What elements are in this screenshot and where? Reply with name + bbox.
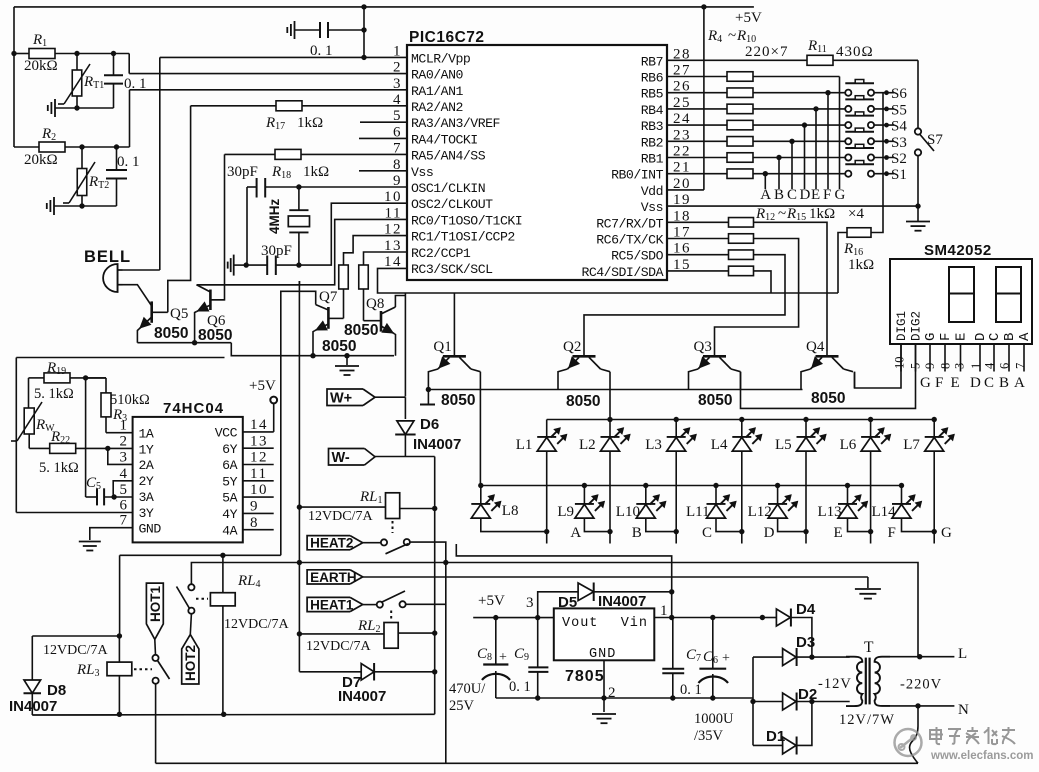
wire HOT1 to RL3 contact — [154, 639, 157, 654]
svg-text:+: + — [722, 651, 730, 666]
node rail1 column F — [868, 417, 873, 422]
wire rail2 to L13 — [847, 486, 849, 504]
svg-text:E: E — [811, 187, 820, 203]
wire Vss pin19 — [667, 205, 918, 207]
wire pin24 row — [667, 124, 727, 126]
wire relay riser W- — [434, 457, 436, 715]
svg-text:1: 1 — [120, 418, 129, 434]
wire mains bottom line — [156, 762, 918, 764]
svg-text:RB0/INT: RB0/INT — [611, 168, 663, 183]
svg-text:12VDC/7A: 12VDC/7A — [224, 617, 289, 632]
svg-text:RB6: RB6 — [641, 71, 664, 86]
svg-text:GND: GND — [589, 647, 616, 662]
svg-text:5A: 5A — [222, 491, 237, 506]
svg-text:0. 1: 0. 1 — [680, 682, 702, 698]
wire pin26 row — [667, 92, 727, 94]
wire column tail B — [609, 532, 611, 544]
wire column tail G — [933, 532, 935, 544]
svg-text:~: ~ — [778, 206, 786, 222]
svg-text:2A: 2A — [139, 458, 154, 473]
svg-text:/35V: /35V — [694, 728, 724, 744]
svg-text:Q8: Q8 — [366, 296, 384, 312]
relay coil RL4 — [210, 593, 235, 606]
switch S4 — [845, 115, 874, 117]
node rail2 L12 — [775, 483, 780, 488]
flag EARTH — [307, 570, 350, 584]
svg-text:8050: 8050 — [566, 393, 600, 410]
switch S3 — [845, 131, 874, 133]
svg-text:6: 6 — [120, 498, 129, 514]
node column F — [825, 90, 830, 95]
diode D7 — [299, 671, 361, 673]
svg-text:5: 5 — [393, 108, 402, 124]
svg-text:B: B — [774, 187, 784, 203]
LED L5 — [797, 436, 816, 438]
svg-text:7: 7 — [120, 513, 129, 529]
wire pin28 RB7 to R11 — [667, 59, 807, 61]
wire row to switch S6 — [753, 92, 845, 94]
switch RL4 contact top — [188, 584, 194, 590]
wire Q1 collector to LED rail2 — [479, 372, 481, 486]
node pin2 pin3 junction — [105, 446, 110, 451]
capacitor 0.1 at MCLR — [328, 29, 364, 31]
wire column below L3 — [675, 451, 677, 531]
LED L14 — [892, 503, 911, 505]
diode D3 — [753, 656, 783, 658]
node column E — [813, 106, 818, 111]
wire column tail E — [805, 532, 807, 544]
wire EARTH to ground — [867, 577, 869, 588]
svg-text:1Y: 1Y — [139, 442, 154, 457]
svg-text:8050: 8050 — [698, 392, 732, 409]
transformer T secondary winding — [875, 657, 890, 706]
svg-text:Q2: Q2 — [563, 339, 581, 355]
svg-text:RB4: RB4 — [641, 103, 664, 118]
wire R22 to pin2 — [76, 447, 133, 449]
wire Q7 base from resistor — [343, 289, 345, 318]
wire pin10 OSC2 — [299, 203, 407, 265]
ground at 7805 — [592, 713, 616, 715]
svg-text:12VDC/7A: 12VDC/7A — [306, 639, 371, 654]
node rail2 L10 — [643, 483, 648, 488]
wire pin22 row — [667, 157, 727, 159]
wire BELL riser — [159, 57, 161, 270]
wire capacitor ground rail — [496, 697, 753, 699]
svg-text:L6: L6 — [840, 437, 857, 453]
wire R16 right to keypad bus — [871, 206, 883, 232]
wire rail2 to L10 — [645, 486, 647, 504]
svg-text:HOT2: HOT2 — [183, 645, 198, 681]
node column A — [763, 171, 768, 176]
wire L14 to column link — [902, 518, 935, 531]
svg-text:C: C — [984, 375, 994, 391]
wire R15 out — [754, 271, 772, 293]
wire column tail C — [675, 532, 677, 544]
svg-text:S4: S4 — [891, 119, 907, 135]
node D3 out — [809, 654, 814, 659]
svg-text:W+: W+ — [330, 390, 352, 406]
wire relay line A from Q7 — [120, 554, 281, 556]
ground at RT2 — [53, 197, 55, 215]
wire pin12 jog to R20 vertical resistor — [344, 236, 408, 266]
speaker BELL — [103, 264, 118, 292]
diode D5 — [578, 583, 594, 601]
transistor Q6 — [209, 290, 212, 311]
svg-text:RA5/AN4/SS: RA5/AN4/SS — [411, 149, 486, 164]
ground at 74HC04 — [79, 541, 101, 543]
ground at S7 — [917, 206, 919, 221]
resistor R1 — [11, 51, 16, 56]
wire relay bottom rail — [32, 713, 434, 716]
svg-text:C: C — [987, 333, 1003, 341]
LED L6 — [861, 436, 880, 438]
svg-text:8050: 8050 — [198, 327, 232, 344]
node column link G — [932, 529, 937, 534]
wire S7 to Vss — [917, 156, 919, 206]
wire RW to R22 — [29, 447, 50, 449]
wire column below L5 — [805, 451, 807, 531]
node rail1 column E — [803, 417, 808, 422]
svg-text:470U/: 470U/ — [449, 681, 486, 697]
transistor Q3 — [703, 355, 726, 358]
resistor R3 vertical — [86, 377, 106, 379]
node column link B — [607, 529, 612, 534]
svg-text:4Y: 4Y — [222, 507, 237, 522]
wire VCC to +5V terminal — [273, 403, 275, 432]
wire +5V output — [473, 617, 554, 619]
svg-text:Q4: Q4 — [806, 339, 825, 355]
switch RL3 contact bottom — [153, 678, 159, 684]
svg-text:220×7: 220×7 — [745, 44, 788, 60]
switch RL4 blade — [177, 587, 190, 609]
node line B Q6 riser — [297, 560, 302, 565]
svg-text:1: 1 — [393, 43, 402, 59]
svg-text:1kΩ: 1kΩ — [297, 115, 323, 131]
switch HEAT1 contact right — [400, 601, 406, 607]
wire column G — [839, 77, 841, 190]
transformer T primary winding — [846, 657, 862, 706]
svg-text:RC1/T1OSI/CCP2: RC1/T1OSI/CCP2 — [411, 230, 515, 245]
svg-text:4MHz: 4MHz — [267, 198, 282, 234]
svg-text:12VDC/7A: 12VDC/7A — [308, 509, 373, 524]
node rail1 Q2 — [607, 417, 612, 422]
flag HEAT2 — [307, 536, 350, 550]
node S7 Vss junction — [915, 203, 920, 208]
svg-text:D6: D6 — [420, 416, 439, 433]
wire RT2 bottom to ground — [79, 203, 84, 208]
LED L12 — [768, 503, 787, 505]
IC U3 display SM42052 box — [890, 259, 1032, 344]
node rail2 L14 — [899, 483, 904, 488]
wire column B — [778, 158, 780, 190]
svg-text:14: 14 — [250, 417, 268, 433]
wire R11 to S7 riser — [833, 59, 918, 61]
svg-text:D8: D8 — [47, 682, 66, 699]
svg-text:N: N — [958, 702, 969, 718]
wire column E — [815, 109, 817, 189]
resistor R16 — [847, 228, 871, 238]
svg-text:D3: D3 — [796, 634, 815, 651]
wire HOT2 to RL4 contact — [190, 614, 191, 635]
svg-text:1: 1 — [660, 603, 668, 619]
wire pin21 row — [667, 173, 727, 175]
wire LED top rail — [547, 419, 935, 421]
svg-text:0. 1: 0. 1 — [509, 679, 531, 695]
resistor R7 — [727, 120, 753, 130]
switch HEAT2 contact right — [404, 539, 410, 545]
wire pin2 pin3 link — [108, 448, 133, 464]
svg-text:B: B — [632, 525, 642, 541]
wire column tail A — [546, 532, 548, 544]
svg-text:F: F — [823, 187, 831, 203]
svg-text:3A: 3A — [139, 490, 154, 505]
svg-text:Vss: Vss — [641, 200, 663, 215]
node crystal top — [296, 184, 301, 189]
svg-text:BELL: BELL — [84, 248, 131, 266]
svg-text:L7: L7 — [903, 437, 920, 453]
node MCLR pin1 junction — [361, 55, 366, 60]
wire bridge left column — [752, 657, 754, 745]
svg-text:L9: L9 — [557, 504, 574, 520]
svg-text:RA2/AN2: RA2/AN2 — [411, 100, 463, 115]
wire pin6 stub — [359, 137, 407, 139]
transistor Q5 — [150, 301, 153, 322]
node C7 gnd — [670, 695, 675, 700]
svg-text:510kΩ: 510kΩ — [110, 392, 150, 408]
svg-text:RC7/RX/DT: RC7/RX/DT — [596, 216, 663, 231]
dashed link RL1 — [392, 521, 394, 533]
wire column segment E — [805, 420, 807, 437]
svg-text:A: A — [1014, 375, 1025, 391]
transistor Q2 — [573, 355, 596, 358]
svg-text:D1: D1 — [766, 728, 785, 745]
svg-text:Vout: Vout — [562, 616, 598, 631]
switch S5 — [845, 98, 874, 100]
svg-text:L5: L5 — [775, 437, 792, 453]
node RL4 drop — [220, 553, 225, 558]
wire oscillator loop left — [15, 358, 17, 513]
flag W+ — [327, 389, 363, 406]
node S3 common — [884, 139, 889, 144]
svg-text:HOT1: HOT1 — [148, 586, 163, 622]
wire RL3 feed down — [119, 555, 121, 636]
wire pin7 GND — [90, 528, 133, 540]
node rail2 L11 — [713, 483, 718, 488]
svg-text:6A: 6A — [222, 458, 237, 473]
node column link F — [868, 529, 873, 534]
node heat riser line B — [443, 560, 448, 565]
svg-text:S5: S5 — [891, 102, 907, 118]
wire pin8 stub — [359, 170, 407, 172]
wire pin4 corner — [191, 105, 407, 107]
svg-text:GND: GND — [139, 522, 162, 537]
svg-text:D4: D4 — [796, 601, 816, 618]
node bottom rail RL4 — [221, 712, 226, 717]
svg-text:L2: L2 — [579, 437, 596, 453]
node S6 common — [884, 90, 889, 95]
watermark logo — [895, 729, 922, 756]
svg-text:1kΩ: 1kΩ — [809, 206, 835, 222]
svg-text:10: 10 — [893, 357, 907, 370]
capacitor 30pF upper — [247, 186, 257, 188]
node C8 junction — [493, 615, 498, 620]
svg-text:RC0/T1OSO/T1CKI: RC0/T1OSO/T1CKI — [411, 213, 522, 228]
svg-text:7: 7 — [393, 141, 402, 157]
wire row to switch S3 — [753, 140, 845, 142]
wire pin7 down to Q6 base — [210, 154, 224, 299]
node S5 common — [884, 107, 889, 112]
switch RL3 contact top — [152, 655, 158, 661]
svg-text:6Y: 6Y — [222, 442, 237, 457]
svg-text:12V/7W: 12V/7W — [839, 712, 895, 728]
relay coil RL3 — [118, 636, 120, 662]
svg-text:5. 1kΩ: 5. 1kΩ — [39, 460, 79, 476]
wire column below L1 — [546, 451, 548, 531]
node GND rail — [601, 695, 606, 700]
display digit 1 — [949, 267, 974, 322]
wire pin2 from R1 junction — [128, 54, 130, 74]
svg-text:20kΩ: 20kΩ — [24, 152, 58, 168]
diode D8 — [31, 636, 33, 680]
switch S1 — [845, 163, 874, 165]
wire Q5 Q6 emitter rail — [137, 342, 231, 344]
svg-text:EARTH: EARTH — [310, 570, 357, 585]
svg-text:B: B — [1002, 333, 1018, 341]
crystal 4MHz — [298, 187, 300, 210]
svg-text:RC5/SDO: RC5/SDO — [611, 249, 663, 264]
svg-text:E: E — [834, 525, 843, 541]
wire MCLR riser — [363, 7, 365, 58]
node +5V rail Vdd riser — [701, 4, 706, 9]
wire pin25 row — [667, 108, 727, 110]
wire keypad common bus — [882, 93, 884, 206]
node column link C — [674, 529, 679, 534]
flag HOT2 — [182, 635, 199, 685]
svg-text:E: E — [954, 333, 970, 341]
svg-text:L: L — [958, 646, 967, 662]
svg-text:0. 1: 0. 1 — [117, 154, 140, 170]
svg-text:SM42052: SM42052 — [924, 242, 992, 259]
svg-text:S2: S2 — [891, 151, 907, 167]
chassis ground at Q rail — [427, 390, 429, 405]
wire column below L7 — [933, 451, 935, 531]
node MCLR cap junction — [361, 27, 366, 32]
svg-text:25V: 25V — [449, 698, 475, 714]
IC U2 74HC04 box — [133, 417, 243, 543]
wire RL4 contact to heat line B — [191, 563, 301, 585]
ground at EARTH — [855, 588, 881, 590]
svg-text:×4: ×4 — [848, 206, 864, 222]
node D2 out — [809, 699, 814, 704]
svg-text:OSC2/CLKOUT: OSC2/CLKOUT — [411, 197, 493, 212]
node RL1 feed — [297, 504, 302, 509]
wire rail2 to L11 — [715, 486, 717, 504]
wire N to mains bottom — [910, 706, 918, 763]
LED L4 — [732, 436, 751, 438]
svg-text:5: 5 — [120, 482, 129, 498]
wire pin4 link — [113, 481, 132, 497]
node bridge left D2 — [750, 699, 755, 704]
svg-text:1A: 1A — [139, 427, 154, 442]
svg-text:+5V: +5V — [249, 378, 276, 394]
wire RT1 bottom to ground — [74, 105, 79, 110]
svg-text:HEAT1: HEAT1 — [310, 598, 354, 613]
capacitor 30pF lower — [296, 262, 301, 267]
wire column A — [764, 174, 766, 189]
node RL2 W- riser — [432, 630, 437, 635]
wire top +5V rail — [14, 6, 754, 8]
svg-text:DIG1: DIG1 — [895, 311, 909, 341]
wire W- to RL riser — [375, 456, 435, 458]
LED L10 — [636, 503, 655, 505]
capacitor C6 electrolytic — [710, 615, 715, 620]
wire Q8 collector to W+ net — [395, 296, 405, 308]
node Vin D5 junction — [669, 589, 674, 594]
wire pin5 stub — [360, 121, 407, 123]
node R1 RT1 junction — [74, 51, 79, 56]
node Q1 emitter rail — [426, 387, 431, 392]
transistor Q8 — [380, 311, 383, 332]
svg-text:VCC: VCC — [215, 426, 238, 441]
wire BELL bottom stub to Q5 collector — [123, 285, 152, 306]
wire pin14 long horizontal — [378, 268, 839, 293]
ground at MCLR cap — [294, 21, 296, 39]
wire pin9 OSC1 — [265, 186, 407, 188]
display pins — [900, 344, 902, 372]
resistor R8 — [727, 137, 753, 147]
svg-text:2: 2 — [120, 433, 129, 449]
wire pin15 R15 to Q1 net — [667, 270, 728, 272]
node R19 R3 junction — [83, 375, 88, 380]
LED L1 — [537, 436, 556, 438]
wire row to switch S1 — [753, 173, 845, 175]
svg-text:L8: L8 — [502, 503, 519, 519]
capacitor C5 — [86, 496, 97, 498]
capacitor 0.1 at RT2 — [116, 147, 118, 170]
wire rail2 to L8 — [480, 486, 482, 504]
node rail2 L13 — [845, 483, 850, 488]
resistor R6 — [727, 104, 753, 114]
svg-text:10: 10 — [250, 482, 268, 498]
svg-text:L14: L14 — [872, 504, 897, 520]
node D7 W- riser — [432, 669, 437, 674]
switch HEAT1 contact left — [363, 604, 377, 606]
node bottom rail RL3 — [117, 712, 122, 717]
node column link A — [544, 529, 549, 534]
wire rail2 to L14 — [901, 486, 903, 504]
svg-text:G: G — [941, 525, 952, 541]
svg-text:G: G — [920, 375, 931, 391]
svg-text:3: 3 — [526, 595, 534, 611]
svg-text:20kΩ: 20kΩ — [24, 58, 58, 74]
wire rail2 to L9 — [583, 486, 585, 504]
resistor R14 — [729, 250, 754, 260]
svg-text:L12: L12 — [748, 504, 772, 520]
thermistor RT2 — [81, 147, 83, 168]
wire HEAT2 to riser — [410, 542, 446, 763]
svg-text:12: 12 — [384, 222, 402, 238]
svg-text:13: 13 — [384, 238, 402, 254]
svg-text:IN4007: IN4007 — [338, 688, 386, 705]
svg-text:HEAT2: HEAT2 — [310, 536, 353, 551]
transformer core — [865, 658, 867, 705]
svg-text:1: 1 — [969, 363, 983, 369]
wire pin16 R14 to Q2 — [667, 254, 728, 256]
svg-text:74HC04: 74HC04 — [163, 400, 224, 417]
wire Q4 collector leg — [854, 372, 856, 388]
wire RL3 contact down to mains line — [155, 684, 157, 764]
svg-text:C: C — [787, 187, 797, 203]
